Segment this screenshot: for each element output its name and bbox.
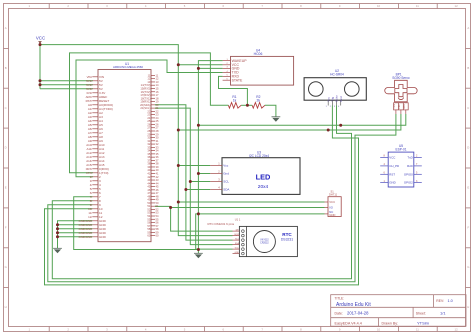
svg-text:HC-SR04: HC-SR04 — [330, 73, 344, 77]
U4 pin numbers — [227, 59, 229, 81]
display U3 I2C LCD 20x4 — [222, 151, 300, 195]
motor BP1 SG90 Servo — [385, 73, 417, 102]
svg-text:RTC DS3231 6 pins: RTC DS3231 6 pins — [208, 222, 235, 226]
svg-text:B: B — [467, 66, 469, 70]
svg-text:A: A — [467, 26, 469, 30]
svg-text:G: G — [5, 265, 7, 269]
svg-text:GND/GND: GND/GND — [79, 235, 93, 239]
svg-text:RxD: RxD — [407, 164, 413, 168]
module RTC DS3231 — [208, 218, 298, 257]
svg-text:ORN: ORN — [394, 104, 396, 109]
net divider R1 wire — [70, 53, 276, 173]
svg-text:CR2032: CR2032 — [260, 243, 269, 245]
IC U1 ARDUINO-MEGA 2560 — [98, 62, 151, 242]
svg-text:1/1: 1/1 — [440, 311, 446, 316]
resistor R2 2k — [252, 95, 265, 108]
svg-text:VCC: VCC — [36, 36, 45, 41]
svg-text:E: E — [467, 186, 469, 190]
svg-text:DHT11: DHT11 — [329, 192, 338, 196]
power flag VCC — [36, 36, 45, 45]
net sonar Echo wire — [52, 106, 351, 279]
svg-text:A: A — [5, 26, 7, 30]
svg-text:CH_PD: CH_PD — [389, 164, 399, 168]
net GND wires — [74, 61, 406, 254]
svg-text:Gnd: Gnd — [339, 96, 343, 102]
RTC pin holes — [242, 230, 245, 255]
svg-text:B: B — [5, 66, 7, 70]
svg-text:11: 11 — [416, 328, 419, 332]
svg-text:SCL: SCL — [223, 180, 229, 184]
U1 right pin stubs — [151, 75, 155, 235]
U2 pin labels — [326, 95, 343, 102]
title block text — [335, 297, 453, 326]
svg-text:RTC: RTC — [282, 232, 292, 237]
svg-text:TxD: TxD — [407, 156, 412, 160]
svg-text:2017-04-28: 2017-04-28 — [347, 311, 369, 316]
U2 pin stubs — [328, 100, 341, 105]
svg-text:12: 12 — [455, 4, 459, 8]
U6 pin stubs — [325, 202, 329, 214]
svg-text:C: C — [5, 106, 7, 110]
U1 left pin names — [99, 75, 113, 239]
svg-text:GPIO2: GPIO2 — [404, 181, 413, 185]
svg-text:EasyEDA V4.4.4: EasyEDA V4.4.4 — [335, 321, 362, 325]
RTC pin stubs — [233, 231, 240, 254]
net HC06 TXD wire — [76, 60, 223, 177]
net sonar Trig wire — [45, 106, 359, 285]
svg-text:11: 11 — [416, 4, 419, 8]
net arduino GND pins wires — [58, 221, 93, 249]
svg-text:SDA: SDA — [235, 242, 240, 245]
BP1 pin labels — [394, 104, 406, 109]
U1 left pin numbers — [79, 75, 93, 239]
svg-text:Date:: Date: — [335, 312, 343, 316]
svg-text:D: D — [5, 146, 7, 150]
BP1 connector pins — [394, 103, 409, 114]
svg-text:VCC: VCC — [329, 200, 335, 204]
svg-text:Drawn By:: Drawn By: — [382, 321, 399, 325]
U3 pin names — [223, 164, 229, 192]
ground symbol near R2 — [272, 117, 281, 122]
svg-text:1.0: 1.0 — [448, 299, 453, 303]
svg-text:H: H — [5, 305, 7, 309]
svg-text:20x4: 20x4 — [258, 184, 269, 190]
net SCL wire — [155, 108, 233, 245]
svg-text:GND: GND — [389, 181, 395, 185]
U4 pin stubs — [223, 61, 231, 81]
svg-text:VCC: VCC — [389, 156, 395, 160]
svg-text:HC06: HC06 — [254, 52, 263, 56]
svg-text:U1 1: U1 1 — [235, 218, 241, 222]
ground symbol arduino — [53, 248, 62, 253]
net RTC pin5 wire — [196, 214, 233, 249]
U4 pin names — [232, 59, 248, 83]
svg-text:10: 10 — [377, 328, 381, 332]
svg-text:Sheet:: Sheet: — [416, 312, 426, 316]
svg-text:YTSim: YTSim — [417, 320, 430, 325]
net VCC power rail wires — [40, 41, 401, 236]
svg-text:GND: GND — [329, 213, 335, 217]
svg-text:ESP-01: ESP-01 — [396, 148, 407, 152]
net SDA wire — [155, 105, 233, 240]
RTC pin labels — [234, 230, 240, 255]
svg-text:REV:: REV: — [436, 299, 444, 303]
svg-text:C: C — [467, 106, 469, 110]
svg-text:Vcc: Vcc — [223, 164, 229, 168]
svg-text:60: 60 — [147, 234, 150, 238]
svg-text:RED: RED — [399, 104, 401, 109]
svg-text:Gnd: Gnd — [223, 172, 229, 176]
svg-text:GND: GND — [99, 235, 107, 239]
svg-text:DS3231: DS3231 — [281, 237, 293, 241]
ground symbol center — [194, 253, 203, 258]
svg-text:VKY032: VKY032 — [260, 240, 269, 242]
svg-text:E: E — [5, 186, 7, 190]
svg-text:GPIO0: GPIO0 — [404, 172, 413, 176]
svg-text:60: 60 — [156, 234, 159, 238]
module U2 HC-SR04 ultrasonic — [304, 69, 366, 100]
svg-text:H: H — [467, 305, 469, 309]
module U4 HC06 bluetooth — [231, 48, 294, 85]
module U5 ESP-01 wifi — [388, 144, 414, 187]
svg-text:STATE: STATE — [232, 78, 243, 82]
svg-text:BRN: BRN — [404, 104, 406, 109]
svg-text:SQW: SQW — [234, 234, 239, 236]
net servo signal wire — [48, 114, 396, 282]
svg-text:RST: RST — [389, 172, 395, 176]
svg-text:SDA: SDA — [223, 188, 229, 192]
U2 pin numbers — [326, 106, 341, 108]
svg-text:Arduino Edu Kit: Arduino Edu Kit — [336, 302, 371, 308]
resistor R1 1k — [228, 95, 241, 108]
svg-text:G: G — [467, 265, 469, 269]
svg-text:D: D — [467, 146, 469, 150]
svg-text:LED: LED — [256, 173, 271, 182]
U5 pin numbers — [384, 155, 419, 183]
svg-text:TITLE:: TITLE: — [335, 297, 345, 301]
U5 pin names — [389, 156, 413, 185]
svg-text:VCC: VCC — [235, 248, 240, 250]
svg-text:12: 12 — [455, 328, 459, 332]
U3 pin numbers — [218, 162, 220, 190]
svg-text:SG90 Servo: SG90 Servo — [392, 76, 410, 80]
U5 pin stubs — [380, 158, 422, 183]
svg-text:ARDUINO-MEGA 2560: ARDUINO-MEGA 2560 — [113, 65, 143, 69]
sensor U6 DHT11 — [328, 189, 341, 217]
svg-text:F: F — [5, 225, 7, 229]
U1 left pin stubs — [92, 77, 98, 237]
U1 right pin names — [140, 73, 151, 237]
net DHT11 data wire — [155, 206, 325, 231]
svg-text:F: F — [467, 225, 469, 229]
U3 pin stubs — [210, 166, 222, 190]
svg-text:GND: GND — [235, 252, 240, 254]
net HC06 RXD wire — [219, 76, 248, 105]
title block — [331, 295, 466, 327]
U1 right pin numbers — [156, 73, 159, 237]
svg-text:10: 10 — [377, 4, 381, 8]
